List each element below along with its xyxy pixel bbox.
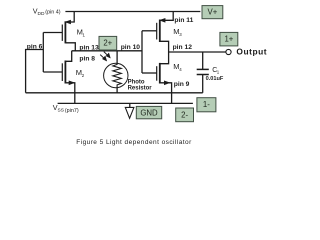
transistor M1 <box>62 20 85 44</box>
svg-text:pin 12: pin 12 <box>173 44 193 51</box>
wire M2 source to VSS <box>65 83 74 104</box>
svg-text:(pin 4): (pin 4) <box>45 9 60 15</box>
svg-text:V+: V+ <box>208 8 218 17</box>
node 1+ box <box>220 32 238 46</box>
svg-text:1-: 1- <box>203 100 210 109</box>
wire M1 source to VDD <box>66 12 74 23</box>
svg-text:pin 13: pin 13 <box>79 44 99 51</box>
photoresistor bottom wire <box>116 88 118 93</box>
wire VDD rail <box>65 11 200 13</box>
node VDD label <box>33 6 61 17</box>
wire rail A (feedback node) <box>26 92 203 94</box>
wire M4 source to VSS <box>160 83 172 104</box>
svg-text:pin 9: pin 9 <box>174 81 190 88</box>
wire ground stub <box>129 103 131 107</box>
wire M3 source to VDD <box>160 12 173 21</box>
node GND box <box>136 106 161 118</box>
wire VSS rail <box>58 102 193 104</box>
wire output (node B to output terminal) <box>169 51 226 53</box>
ground <box>125 107 134 118</box>
transistor M3 <box>157 18 183 42</box>
svg-text:Photo: Photo <box>128 79 145 85</box>
svg-text:GND: GND <box>140 108 158 117</box>
transistor M4 <box>157 62 183 85</box>
node A wire (inverter1 output, pin13/pin8 to pin10) <box>72 50 142 52</box>
wire M2 drain to node A <box>65 51 71 62</box>
wire M4 gate <box>142 72 157 74</box>
svg-text:0.01uF: 0.01uF <box>206 76 224 82</box>
svg-text:SS: SS <box>58 108 64 114</box>
transistor M2 <box>62 61 84 86</box>
svg-text:(pin7): (pin7) <box>65 108 79 114</box>
node V+ box <box>202 6 223 19</box>
node 2+ box <box>99 36 117 50</box>
svg-text:pin 10: pin 10 <box>121 44 141 51</box>
svg-text:2-: 2- <box>181 110 188 119</box>
capacitor C1 <box>197 52 224 93</box>
svg-text:Resistor: Resistor <box>128 86 153 92</box>
svg-text:1+: 1+ <box>224 35 233 44</box>
svg-text:2+: 2+ <box>103 39 112 48</box>
wire M2 gate <box>43 71 62 73</box>
svg-text:pin 6: pin 6 <box>27 43 43 50</box>
wire M3 gate <box>142 30 157 32</box>
wire right gate rail <box>141 31 143 73</box>
wire M1 gate <box>43 32 62 34</box>
node 1- box <box>197 98 216 112</box>
node VSS label <box>53 103 79 114</box>
photo resistor R1 <box>104 63 153 91</box>
light arrows <box>100 52 110 61</box>
photoresistor top wire <box>116 51 118 64</box>
wire M1 drain to node A <box>65 43 75 51</box>
svg-text:Output: Output <box>236 46 267 56</box>
svg-text:pin 11: pin 11 <box>174 17 193 24</box>
svg-text:DD: DD <box>38 11 45 17</box>
output terminal <box>226 49 231 54</box>
wire left gate rail <box>42 33 44 73</box>
svg-text:pin 8: pin 8 <box>79 55 95 62</box>
svg-text:Figure 5 Light dependent oscil: Figure 5 Light dependent oscillator <box>76 139 192 146</box>
wire M3 drain / M4 drain node B <box>160 41 169 63</box>
node 2- box <box>176 108 194 122</box>
wire pin6 stub <box>26 50 44 93</box>
